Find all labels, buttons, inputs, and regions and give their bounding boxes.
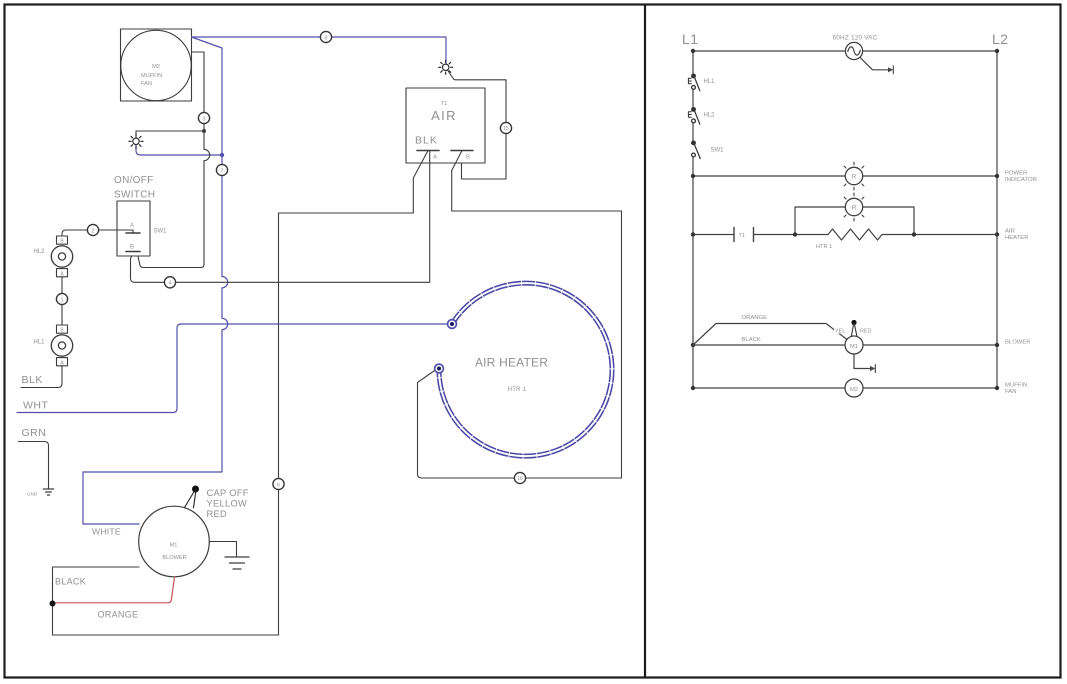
svg-text:AIR: AIR [1005,229,1015,235]
svg-text:YEL: YEL [835,329,845,335]
wire orange bypass blower [693,324,847,346]
wire black HL1 A to BLK lead [21,366,62,388]
svg-text:SW1: SW1 [154,229,168,235]
svg-text:BLK: BLK [415,135,438,147]
wire red orange lead M1 [53,577,175,603]
wire black T1 B to heater terminal 2 via node 16 [418,151,622,479]
svg-text:T1: T1 [441,101,448,107]
svg-text:16: 16 [517,476,523,482]
svg-text:3: 3 [203,116,206,122]
ground chassis symbol at M1 [225,557,249,569]
source 60HZ 120 VAC [833,35,894,74]
capped dot YEL RED above M1 [834,320,871,336]
motor M1 blower [139,506,210,577]
svg-text:BLACK: BLACK [55,577,86,587]
svg-text:ORANGE: ORANGE [98,610,139,620]
svg-text:MUFFIN: MUFFIN [1005,383,1027,389]
wire black T1 A to bottom loop via node 6 [53,151,429,636]
switch HL1 on rail [688,74,715,91]
svg-text:YELLOW: YELLOW [207,499,248,509]
svg-text:T1: T1 [739,233,746,239]
splice connector 1 (wire nut) [129,134,143,148]
svg-text:POWER: POWER [1005,171,1027,177]
svg-text:2: 2 [92,228,95,234]
svg-text:HL2: HL2 [34,249,46,255]
wire blue fan white lead vertical with hops [83,37,228,524]
svg-text:A: A [433,155,437,161]
svg-text:7: 7 [221,168,224,174]
wire black HL2 A to HL1 B via node 1 [61,277,63,325]
svg-text:WHT: WHT [23,400,48,412]
svg-text:FAN: FAN [1005,389,1016,395]
svg-text:4: 4 [169,281,172,287]
svg-text:L2: L2 [992,31,1009,47]
wire arrow below M1 [854,354,875,373]
svg-text:BLACK: BLACK [742,337,761,343]
motor M2 [845,379,863,397]
wire top rung [693,50,997,52]
rail L2 (right vertical) [996,51,998,388]
svg-text:HTR 1: HTR 1 [816,244,832,250]
wire power indicator rung [693,175,997,177]
wire black fan lead to SW1 B [137,52,210,268]
transformer T1 bars [734,228,754,242]
wire black T1 A to SW1 B via node 4 [131,151,430,283]
svg-text:M1: M1 [170,543,178,549]
lamp HL1 [34,325,73,366]
resistor HTR 1 [828,229,997,240]
node 16 [514,472,525,483]
svg-text:6: 6 [277,482,280,488]
svg-text:WHITE: WHITE [92,527,121,537]
wire black junction to splice1 [136,131,204,138]
svg-text:A: A [130,223,134,229]
switch HL2 on rail [688,108,715,125]
svg-text:8: 8 [325,35,328,41]
junction dots top rung [691,49,695,53]
svg-text:FAN: FAN [141,81,152,87]
svg-text:1: 1 [61,297,64,303]
wire blower rung [693,344,997,346]
wire muffin fan rung [693,387,997,389]
node 8 [320,31,331,42]
lamp R air heater [840,193,868,221]
svg-text:60HZ 120 VAC: 60HZ 120 VAC [833,35,878,42]
svg-text:BLOWER: BLOWER [1005,340,1031,346]
svg-text:ON/OFF: ON/OFF [114,175,154,186]
svg-text:BLK: BLK [22,374,43,386]
svg-text:HL1: HL1 [704,79,716,85]
ground GND earth symbol [27,489,54,497]
svg-text:M1: M1 [850,344,858,350]
wire black splice2 to T1 B via node 15 [448,71,506,179]
rail L1 (left vertical) [692,51,694,388]
node 6 [273,478,284,489]
svg-text:ORANGE: ORANGE [742,315,768,321]
wire black HL2 B to SW1 A via node 2 [62,230,133,236]
svg-text:B: B [130,245,134,251]
motor M2 muffin fan [121,29,192,101]
svg-text:RED: RED [207,509,228,519]
svg-text:B: B [466,155,470,161]
svg-text:INDICATOR: INDICATOR [1005,177,1037,183]
lamp HL2 [34,236,73,277]
svg-text:L1: L1 [682,31,699,47]
wire blue splice1 to white lead junction [136,146,222,156]
svg-text:SWITCH: SWITCH [114,190,155,201]
heater coil AIR HEATER HTR1 [439,283,612,456]
svg-text:HTR 1: HTR 1 [508,387,527,393]
svg-text:SW1: SW1 [711,148,725,154]
node 1 [56,293,67,304]
junction dot black orange/black [50,601,56,607]
heater terminal 2 (blue donut) [435,364,444,373]
junction dot blue at (222,155) [220,153,224,157]
svg-text:HL1: HL1 [34,340,46,346]
lamp R power indicator [840,162,868,190]
svg-text:M2: M2 [152,64,160,70]
wire black M1 to chassis ground [209,542,236,557]
svg-text:R: R [852,175,857,181]
wire blue WHT lead to heater terminal 1 [17,324,448,413]
node 7 [216,164,227,175]
wire air heater rung with transformer T1 bars [693,234,828,236]
svg-text:AIR HEATER: AIR HEATER [475,356,548,370]
svg-text:HEATER: HEATER [1005,235,1028,241]
switch SW1 on/off [114,175,167,256]
svg-text:15: 15 [503,126,509,132]
switch SW1 on rail [692,141,725,159]
svg-text:CAP OFF: CAP OFF [207,488,249,498]
node 3 [198,112,209,123]
wire black GRN lead to ground [19,442,49,489]
svg-text:R: R [852,206,857,212]
svg-text:RED: RED [860,329,871,335]
terminal A of T1 [417,150,439,152]
node 2 [87,224,98,235]
node 15 [500,122,511,133]
junction dot black at (204,131) [202,129,206,133]
splice connector 2 (wire nut) [439,60,453,74]
svg-text:MUFFIN: MUFFIN [141,73,162,79]
svg-text:HL2: HL2 [704,113,716,119]
svg-text:AIR: AIR [431,108,457,123]
svg-text:BLOWER: BLOWER [162,555,186,561]
svg-text:GRN: GRN [22,427,47,439]
svg-text:GND: GND [27,492,38,497]
capped-off leads dot at M1 [185,486,200,508]
node 4 [164,277,175,288]
wire lamp branch air heater [795,207,914,235]
terminal B of T1 [451,150,473,152]
transformer T1 AIR box [406,88,485,163]
heater terminal 1 (blue donut) [448,320,457,329]
motor M1 [845,336,863,354]
wire blue fan to splice (top) [192,37,447,64]
svg-text:M2: M2 [850,387,858,393]
